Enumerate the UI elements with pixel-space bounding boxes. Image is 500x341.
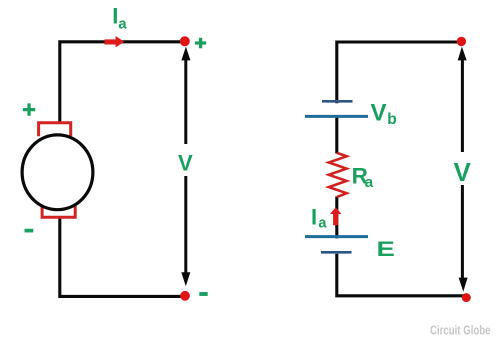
wire: battery Vb to resistor Ra xyxy=(335,116,338,154)
voltage arrow V lower segment with down arrowhead (left circuit) xyxy=(184,176,187,273)
motor M armature circle xyxy=(22,135,93,210)
battery E top plate (long) xyxy=(305,235,368,238)
svg-text:V: V xyxy=(371,99,387,126)
svg-text:a: a xyxy=(365,174,374,191)
svg-text:V: V xyxy=(178,151,193,176)
node: right circuit bottom terminal (red dot) xyxy=(462,293,471,302)
motor brush top (red bracket) xyxy=(39,123,71,137)
svg-text:I: I xyxy=(311,205,317,230)
svg-text:a: a xyxy=(318,215,327,231)
current arrow Ia (left circuit, on top wire) xyxy=(105,36,125,47)
node: left circuit + terminal (red dot) xyxy=(180,36,190,46)
node: left circuit - terminal (red dot) xyxy=(180,291,190,301)
resistor Ra (red zigzag) xyxy=(329,153,347,197)
wire: resistor Ra to current arrow / battery E xyxy=(335,197,338,239)
svg-text:a: a xyxy=(118,15,127,32)
motor brush bottom (red bracket) xyxy=(42,206,75,217)
battery Vb top plate (short) xyxy=(322,100,353,103)
label + (left circuit terminal) xyxy=(195,38,206,49)
svg-text:E: E xyxy=(377,238,395,262)
label - (left circuit terminal) xyxy=(199,292,207,296)
label E xyxy=(377,238,395,262)
label - (motor polarity) xyxy=(25,229,34,233)
current arrow Ia (right branch, pointing up) xyxy=(330,207,341,225)
wire: right circuit top run (battery Vb top lead + top horizontal to top node) xyxy=(337,42,460,103)
label + (motor polarity) xyxy=(23,103,35,115)
wire: right circuit bottom run (battery E bottom lead + bottom horizontal to bottom node) xyxy=(337,254,464,296)
wire: left circuit top run (motor top lead + top horizontal to + node) xyxy=(60,42,184,123)
voltage arrow V lower segment with down arrowhead (right circuit) xyxy=(461,185,464,278)
node: right circuit top terminal (red dot) xyxy=(457,37,466,46)
voltage arrow V upper segment with up arrowhead (left circuit) xyxy=(184,60,187,144)
svg-text:Circuit Globe: Circuit Globe xyxy=(430,323,491,338)
svg-text:V: V xyxy=(454,157,472,187)
battery E bottom plate (short) xyxy=(321,251,352,254)
battery Vb bottom plate (long) xyxy=(305,115,368,118)
voltage arrow V upper segment with up arrowhead (right circuit) xyxy=(461,60,464,152)
wire: left circuit bottom run (motor bottom lead + bottom horizontal to - node) xyxy=(60,219,184,297)
svg-text:b: b xyxy=(387,111,396,128)
